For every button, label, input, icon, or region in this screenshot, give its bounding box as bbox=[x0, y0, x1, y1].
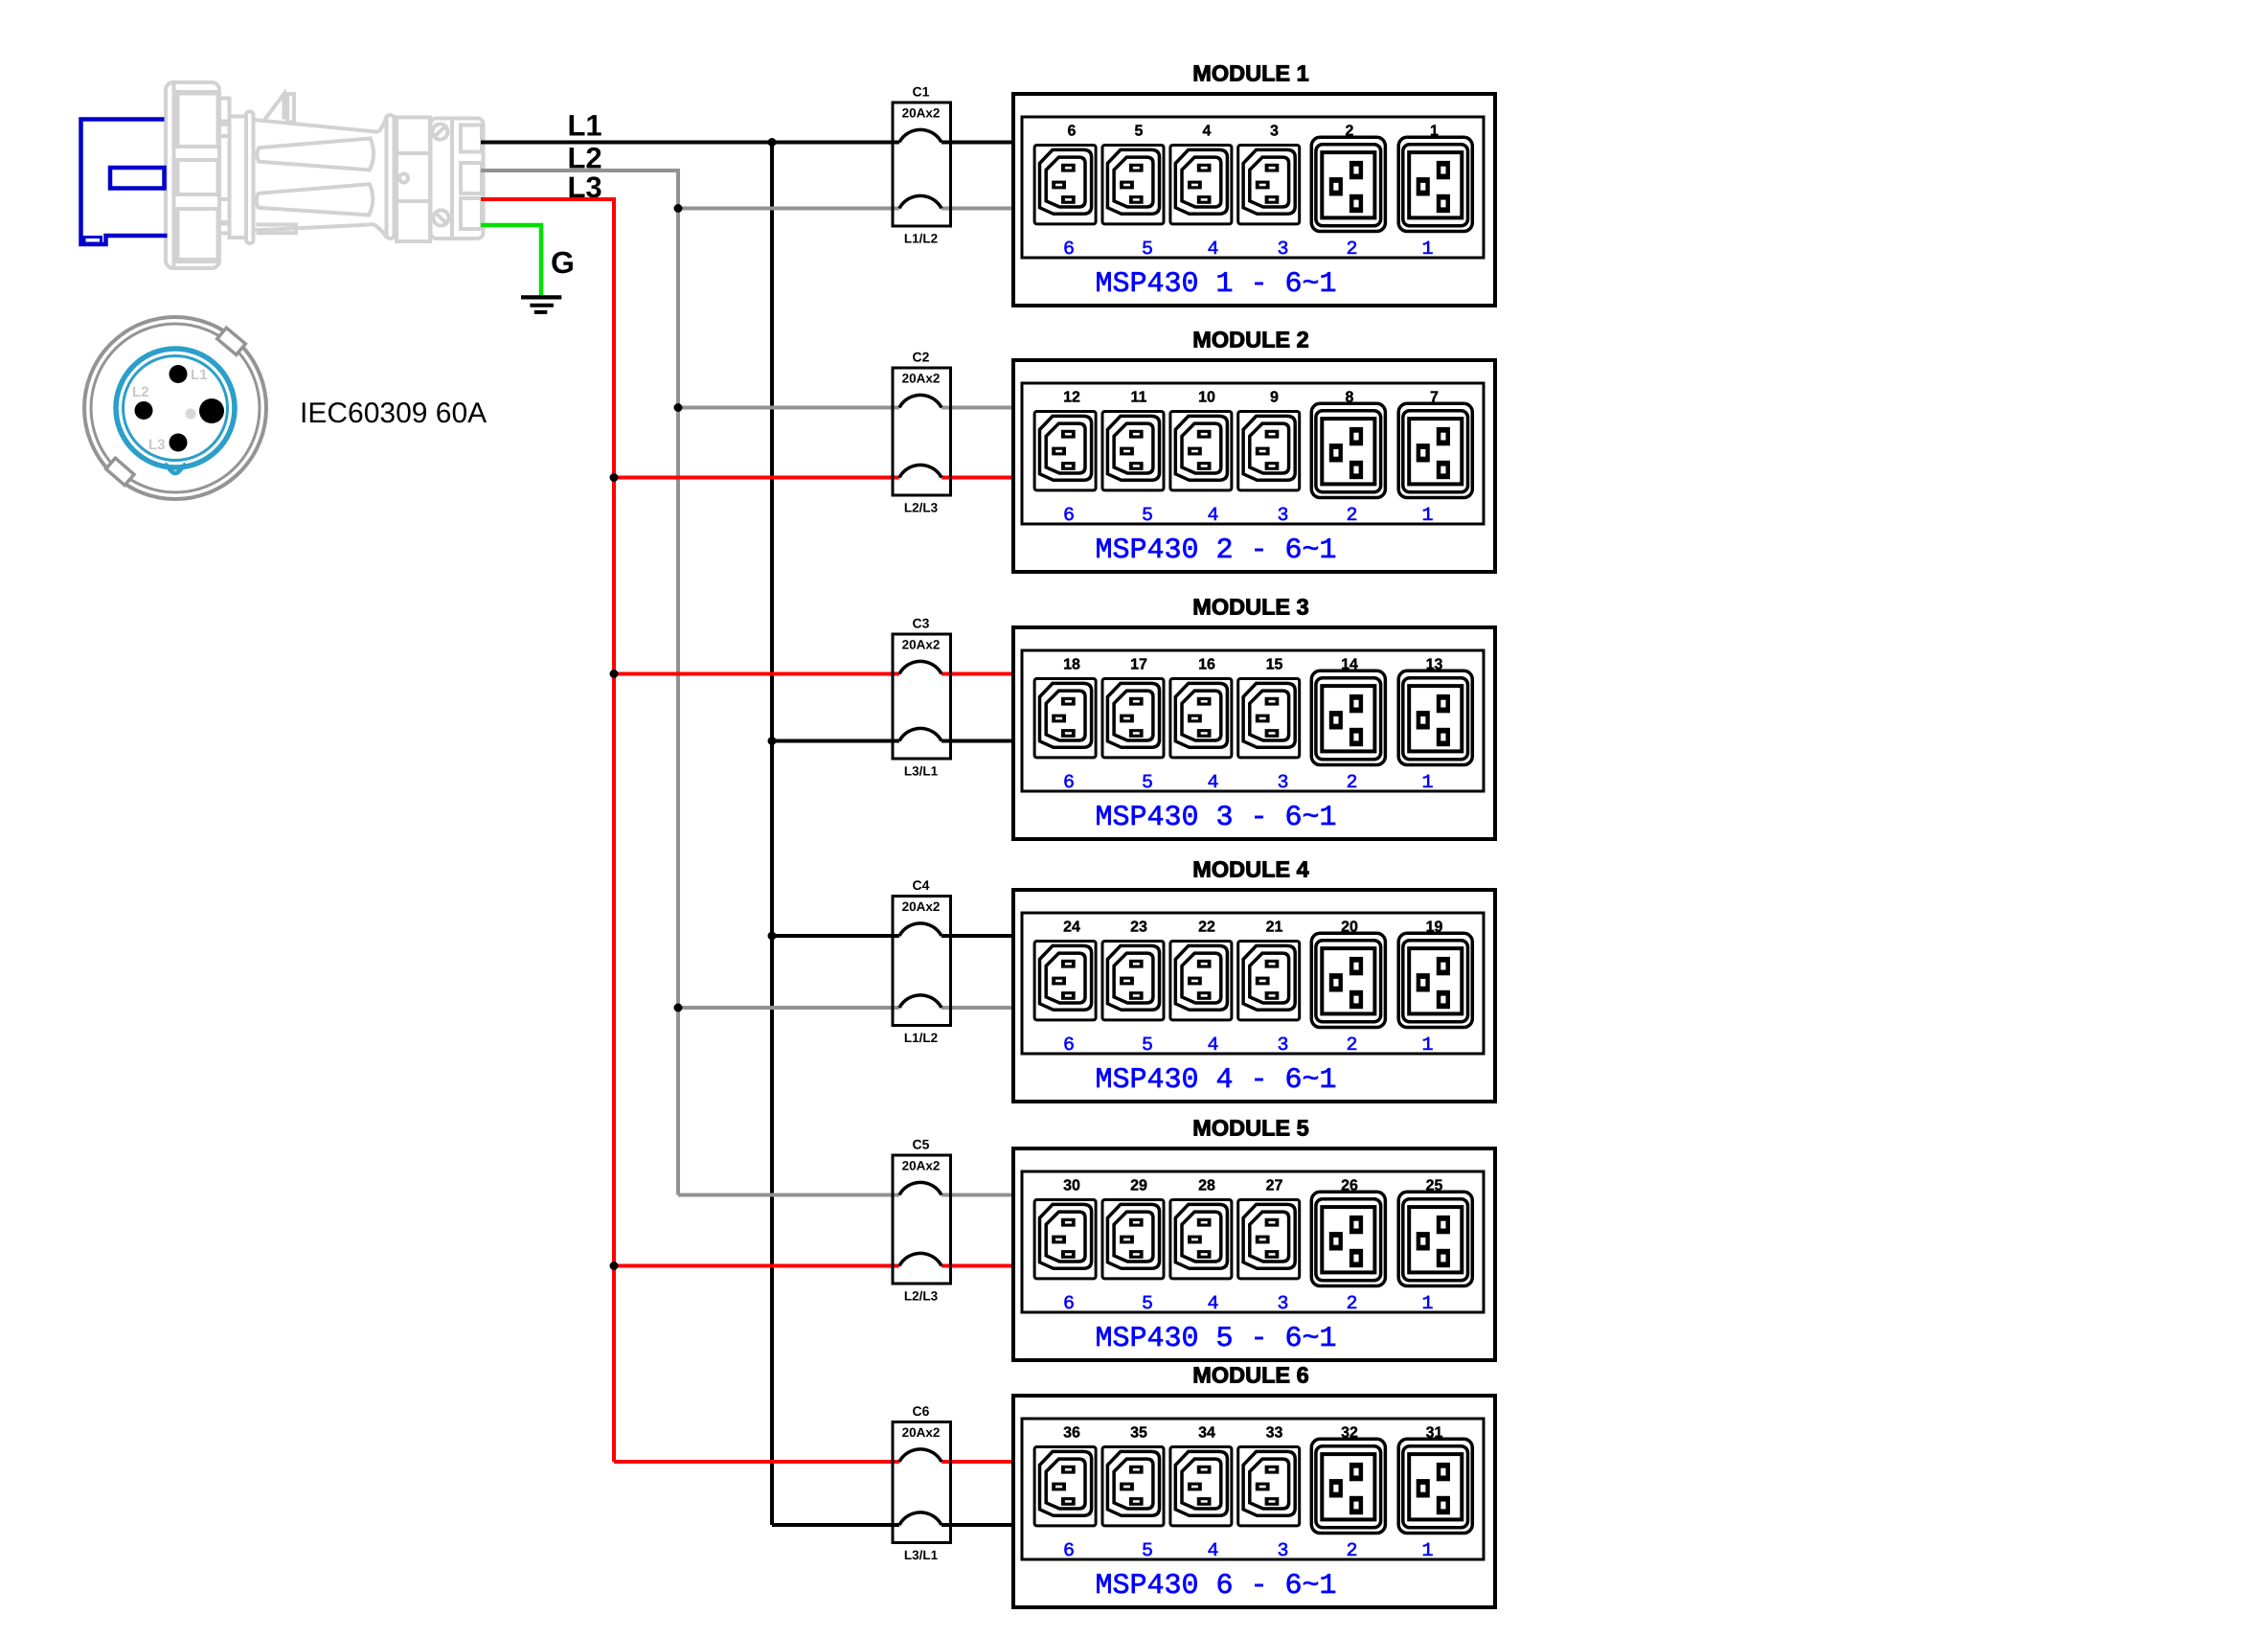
wire L3 from breaker C5 bottom output to module 5 bbox=[941, 1264, 1013, 1268]
svg-text:29: 29 bbox=[1130, 1178, 1147, 1194]
module 2 enclosure bbox=[1013, 360, 1495, 572]
wire L1 from breaker C3 bottom output to module 3 bbox=[941, 739, 1013, 743]
svg-text:MODULE 3: MODULE 3 bbox=[1192, 595, 1308, 620]
svg-text:L1: L1 bbox=[568, 109, 602, 143]
svg-text:L3: L3 bbox=[148, 437, 166, 453]
svg-text:7: 7 bbox=[1430, 390, 1439, 406]
outlet 16 (IEC C13) bbox=[1170, 679, 1232, 758]
wire L3 branch from bus to breaker C2 bottom input bbox=[614, 476, 899, 480]
svg-text:MSP430 1 - 6~1: MSP430 1 - 6~1 bbox=[1095, 268, 1336, 301]
svg-text:17: 17 bbox=[1130, 657, 1147, 673]
outlet 33 (IEC C13) bbox=[1238, 1447, 1300, 1526]
outlet 36 (IEC C13) bbox=[1034, 1447, 1096, 1526]
svg-text:6: 6 bbox=[1063, 1293, 1075, 1315]
svg-text:21: 21 bbox=[1266, 920, 1283, 936]
outlet 14 (IEC C19) bbox=[1311, 671, 1385, 764]
svg-text:4: 4 bbox=[1207, 239, 1218, 261]
outlet 9 (IEC C13) bbox=[1238, 412, 1300, 490]
pin N/PE of connector face bbox=[199, 398, 224, 423]
node L2 tap at C4 bbox=[674, 1004, 683, 1012]
svg-text:1: 1 bbox=[1421, 1540, 1433, 1562]
svg-text:L1/L2: L1/L2 bbox=[904, 232, 938, 246]
outlet 8 (IEC C19) bbox=[1311, 403, 1385, 497]
plug J1: IEC60309 60A 3P+E plug, side view (light gray CAD drawing) bbox=[166, 82, 484, 268]
svg-text:MSP430 5 - 6~1: MSP430 5 - 6~1 bbox=[1095, 1323, 1336, 1355]
svg-text:19: 19 bbox=[1426, 920, 1443, 936]
svg-text:5: 5 bbox=[1142, 772, 1153, 794]
wire L3 branch from bus to breaker C3 top input bbox=[614, 672, 899, 676]
svg-text:6: 6 bbox=[1063, 239, 1075, 261]
svg-text:15: 15 bbox=[1266, 657, 1283, 673]
svg-text:28: 28 bbox=[1198, 1178, 1215, 1194]
module 5 enclosure bbox=[1013, 1148, 1495, 1360]
outlet 13 (IEC C19) bbox=[1398, 671, 1472, 764]
outlet 3 (IEC C13) bbox=[1238, 146, 1300, 224]
wire L3 from breaker C6 top output to module 6 bbox=[941, 1460, 1013, 1464]
wire L1 branch from bus to breaker C3 bottom input bbox=[772, 739, 899, 743]
svg-text:MSP430 2 - 6~1: MSP430 2 - 6~1 bbox=[1095, 534, 1336, 567]
svg-text:20Ax2: 20Ax2 bbox=[902, 1425, 941, 1440]
connector face J1: IEC60309 60A front view bbox=[84, 317, 266, 499]
wire L3 branch from bus to breaker C5 bottom input bbox=[614, 1264, 899, 1268]
svg-text:L2/L3: L2/L3 bbox=[904, 1289, 939, 1304]
outlet 17 (IEC C13) bbox=[1102, 679, 1164, 758]
bus L1 (black vertical) bbox=[770, 143, 774, 1526]
breaker C5 (L2/L3 20Ax2) bbox=[893, 1155, 951, 1284]
svg-text:2: 2 bbox=[1346, 124, 1354, 140]
svg-text:36: 36 bbox=[1063, 1425, 1080, 1442]
svg-text:C4: C4 bbox=[913, 877, 930, 893]
svg-text:20Ax2: 20Ax2 bbox=[902, 638, 941, 652]
outlet 31 (IEC C19) bbox=[1398, 1439, 1472, 1533]
outlet 1 (IEC C19) bbox=[1398, 137, 1472, 231]
center pilot dot of connector face bbox=[186, 409, 196, 420]
outlet 22 (IEC C13) bbox=[1170, 942, 1232, 1020]
outlet 10 (IEC C13) bbox=[1170, 412, 1232, 490]
module 3 outlet panel bbox=[1022, 650, 1484, 791]
wire L2 branch from bus to breaker C4 bottom input bbox=[678, 1006, 899, 1010]
svg-text:2: 2 bbox=[1346, 505, 1357, 527]
svg-text:20Ax2: 20Ax2 bbox=[902, 1159, 941, 1173]
svg-text:3: 3 bbox=[1277, 1293, 1288, 1315]
wire L2 branch from bus to breaker C5 top input bbox=[678, 1194, 899, 1197]
breaker C2 (L2/L3 20Ax2) bbox=[893, 368, 951, 495]
svg-text:L1/L2: L1/L2 bbox=[904, 1031, 938, 1045]
svg-text:6: 6 bbox=[1063, 1034, 1075, 1057]
outlet 23 (IEC C13) bbox=[1102, 942, 1164, 1020]
wire L1 from breaker C1 top output to module 1 bbox=[941, 141, 1013, 145]
module 1 outlet panel bbox=[1022, 117, 1484, 258]
outlet 7 (IEC C19) bbox=[1398, 403, 1472, 497]
outlet 18 (IEC C13) bbox=[1034, 679, 1096, 758]
outlet 28 (IEC C13) bbox=[1170, 1200, 1232, 1279]
node L3 tap at C2 bbox=[610, 473, 619, 482]
wire L1 from breaker C6 bottom output to module 6 bbox=[941, 1523, 1013, 1527]
svg-text:IEC60309 60A: IEC60309 60A bbox=[300, 398, 487, 429]
breaker C4 (L1/L2 20Ax2) bbox=[893, 897, 951, 1026]
svg-text:MODULE 5: MODULE 5 bbox=[1192, 1116, 1308, 1141]
outlet 4 (IEC C13) bbox=[1170, 146, 1232, 224]
svg-text:L1: L1 bbox=[191, 367, 208, 383]
svg-text:MODULE 6: MODULE 6 bbox=[1192, 1363, 1308, 1388]
svg-text:5: 5 bbox=[1135, 124, 1144, 140]
svg-text:23: 23 bbox=[1130, 920, 1147, 936]
svg-text:C6: C6 bbox=[913, 1403, 930, 1419]
svg-text:MSP430 6 - 6~1: MSP430 6 - 6~1 bbox=[1095, 1570, 1336, 1603]
outlet 27 (IEC C13) bbox=[1238, 1200, 1300, 1279]
svg-text:6: 6 bbox=[1068, 124, 1077, 140]
module 4 enclosure bbox=[1013, 890, 1495, 1102]
outlet 30 (IEC C13) bbox=[1034, 1200, 1096, 1279]
svg-text:3: 3 bbox=[1277, 772, 1288, 794]
module 4 outlet panel bbox=[1022, 913, 1484, 1054]
ground symbol bbox=[521, 297, 561, 312]
node L1 tap at C1 bbox=[768, 138, 777, 147]
svg-text:MODULE 2: MODULE 2 bbox=[1192, 328, 1308, 352]
svg-text:6: 6 bbox=[1063, 772, 1075, 794]
pin L3 of connector face bbox=[170, 434, 188, 452]
node L1 tap at C3 bbox=[768, 737, 777, 745]
svg-text:14: 14 bbox=[1341, 657, 1358, 673]
svg-text:9: 9 bbox=[1270, 390, 1279, 406]
svg-text:5: 5 bbox=[1142, 239, 1153, 261]
outlet 26 (IEC C19) bbox=[1311, 1192, 1385, 1285]
svg-text:12: 12 bbox=[1063, 390, 1080, 406]
wire L2 from breaker C4 bottom output to module 4 bbox=[941, 1006, 1013, 1010]
svg-text:1: 1 bbox=[1421, 1293, 1433, 1315]
wire L3 from breaker C2 bottom output to module 2 bbox=[941, 476, 1013, 480]
wire L3 from breaker C3 top output to module 3 bbox=[941, 672, 1013, 676]
wire L2 branch from bus to breaker C1 bottom input bbox=[678, 207, 899, 211]
svg-text:2: 2 bbox=[1346, 1540, 1357, 1562]
svg-text:16: 16 bbox=[1198, 657, 1215, 673]
wire L2 from breaker C1 bottom output to module 1 bbox=[941, 207, 1013, 211]
svg-text:18: 18 bbox=[1063, 657, 1080, 673]
svg-text:4: 4 bbox=[1203, 124, 1212, 140]
outlet 25 (IEC C19) bbox=[1398, 1192, 1472, 1285]
outlet 24 (IEC C13) bbox=[1034, 942, 1096, 1020]
svg-text:L2: L2 bbox=[132, 384, 149, 400]
svg-text:20Ax2: 20Ax2 bbox=[902, 372, 941, 386]
wire L2 (gray) from plug, turning down into L2 bus bbox=[481, 171, 678, 1195]
svg-text:1: 1 bbox=[1430, 124, 1439, 140]
outlet 21 (IEC C13) bbox=[1238, 942, 1300, 1020]
outlet 2 (IEC C19) bbox=[1311, 137, 1385, 231]
svg-text:C2: C2 bbox=[913, 350, 930, 365]
svg-text:C1: C1 bbox=[913, 84, 930, 100]
svg-text:MSP430 4 - 6~1: MSP430 4 - 6~1 bbox=[1095, 1064, 1336, 1097]
svg-text:6: 6 bbox=[1063, 505, 1075, 527]
node L1 tap at C4 bbox=[768, 932, 777, 941]
wire G (green) from plug to ground bbox=[481, 225, 541, 297]
wire L2 branch from bus to breaker C2 top input bbox=[678, 406, 899, 410]
outlet 19 (IEC C19) bbox=[1398, 933, 1472, 1027]
svg-text:C3: C3 bbox=[913, 616, 930, 631]
svg-text:26: 26 bbox=[1341, 1178, 1358, 1194]
outlet 35 (IEC C13) bbox=[1102, 1447, 1164, 1526]
svg-text:22: 22 bbox=[1198, 920, 1215, 936]
outlet 20 (IEC C19) bbox=[1311, 933, 1385, 1027]
svg-text:34: 34 bbox=[1198, 1425, 1215, 1442]
breaker C1 (L1/L2 20Ax2) bbox=[893, 102, 951, 226]
outlet 6 (IEC C13) bbox=[1034, 146, 1096, 224]
svg-text:L3/L1: L3/L1 bbox=[904, 1548, 939, 1562]
svg-text:24: 24 bbox=[1063, 920, 1080, 936]
svg-text:MODULE 4: MODULE 4 bbox=[1192, 857, 1308, 882]
svg-text:MSP430 3 - 6~1: MSP430 3 - 6~1 bbox=[1095, 802, 1336, 834]
svg-text:35: 35 bbox=[1130, 1425, 1147, 1442]
svg-text:8: 8 bbox=[1346, 390, 1354, 406]
svg-text:11: 11 bbox=[1131, 390, 1147, 406]
node L2 tap at C2 bbox=[674, 403, 683, 412]
wire L2 from breaker C2 top output to module 2 bbox=[941, 406, 1013, 410]
module 3 enclosure bbox=[1013, 627, 1495, 839]
svg-text:1: 1 bbox=[1421, 772, 1433, 794]
svg-text:20Ax2: 20Ax2 bbox=[902, 106, 941, 121]
wire L2 from breaker C5 top output to module 5 bbox=[941, 1194, 1013, 1197]
outlet 11 (IEC C13) bbox=[1102, 412, 1164, 490]
wire L3 (red) from plug, turning down into L3 bus bbox=[481, 199, 614, 1462]
svg-text:6: 6 bbox=[1063, 1540, 1075, 1562]
node L3 tap at C3 bbox=[610, 670, 619, 678]
svg-text:3: 3 bbox=[1277, 505, 1288, 527]
svg-text:4: 4 bbox=[1207, 772, 1218, 794]
svg-text:33: 33 bbox=[1266, 1425, 1283, 1442]
svg-text:10: 10 bbox=[1198, 390, 1215, 406]
svg-text:31: 31 bbox=[1426, 1425, 1443, 1442]
svg-text:32: 32 bbox=[1341, 1425, 1358, 1442]
svg-text:4: 4 bbox=[1207, 1293, 1218, 1315]
svg-text:2: 2 bbox=[1346, 1034, 1357, 1057]
module 6 outlet panel bbox=[1022, 1419, 1484, 1559]
plug J1 cable clamp housing (blue) bbox=[81, 120, 168, 245]
svg-text:30: 30 bbox=[1063, 1178, 1080, 1194]
outlet 12 (IEC C13) bbox=[1034, 412, 1096, 490]
svg-text:C5: C5 bbox=[913, 1137, 930, 1152]
svg-text:G: G bbox=[551, 245, 575, 280]
svg-text:5: 5 bbox=[1142, 1293, 1153, 1315]
svg-text:4: 4 bbox=[1207, 505, 1218, 527]
svg-text:1: 1 bbox=[1421, 505, 1433, 527]
svg-text:5: 5 bbox=[1142, 1540, 1153, 1562]
svg-text:27: 27 bbox=[1266, 1178, 1283, 1194]
svg-text:4: 4 bbox=[1207, 1034, 1218, 1057]
svg-text:13: 13 bbox=[1426, 657, 1443, 673]
svg-text:1: 1 bbox=[1421, 1034, 1433, 1057]
svg-text:3: 3 bbox=[1277, 1034, 1288, 1057]
svg-text:3: 3 bbox=[1277, 1540, 1288, 1562]
svg-text:4: 4 bbox=[1207, 1540, 1218, 1562]
wire L1 (black) from plug to breaker C1 input bbox=[481, 141, 899, 145]
svg-text:3: 3 bbox=[1270, 124, 1279, 140]
breaker C6 (L3/L1 20Ax2) bbox=[893, 1422, 951, 1543]
wire L1 from breaker C4 top output to module 4 bbox=[941, 934, 1013, 938]
node L3 tap at C5 bbox=[610, 1262, 619, 1270]
svg-text:2: 2 bbox=[1346, 1293, 1357, 1315]
module 2 outlet panel bbox=[1022, 383, 1484, 524]
pin L2 of connector face bbox=[135, 401, 153, 420]
outlet 15 (IEC C13) bbox=[1238, 679, 1300, 758]
outlet 34 (IEC C13) bbox=[1170, 1447, 1232, 1526]
svg-text:L2/L3: L2/L3 bbox=[904, 501, 939, 515]
svg-text:5: 5 bbox=[1142, 505, 1153, 527]
outlet 5 (IEC C13) bbox=[1102, 146, 1164, 224]
svg-text:20Ax2: 20Ax2 bbox=[902, 899, 941, 914]
svg-text:1: 1 bbox=[1421, 239, 1433, 261]
svg-text:2: 2 bbox=[1346, 239, 1357, 261]
svg-text:L3/L1: L3/L1 bbox=[904, 764, 939, 779]
wire L1 branch from bus to breaker C4 top input bbox=[772, 934, 899, 938]
outlet 29 (IEC C13) bbox=[1102, 1200, 1164, 1279]
module 5 outlet panel bbox=[1022, 1171, 1484, 1312]
svg-text:25: 25 bbox=[1426, 1178, 1443, 1194]
module 6 enclosure bbox=[1013, 1396, 1495, 1607]
wire L1 branch from bus to breaker C6 bottom input bbox=[772, 1523, 899, 1527]
pin L1 of connector face bbox=[170, 365, 188, 383]
svg-text:5: 5 bbox=[1142, 1034, 1153, 1057]
node L2 tap at C1 bbox=[674, 204, 683, 213]
wire L3 branch from bus to breaker C6 top input bbox=[614, 1460, 899, 1464]
svg-text:MODULE 1: MODULE 1 bbox=[1192, 61, 1308, 86]
outlet 32 (IEC C19) bbox=[1311, 1439, 1385, 1533]
module 1 enclosure bbox=[1013, 94, 1495, 306]
svg-text:3: 3 bbox=[1277, 239, 1288, 261]
breaker C3 (L3/L1 20Ax2) bbox=[893, 634, 951, 759]
svg-text:2: 2 bbox=[1346, 772, 1357, 794]
svg-text:20: 20 bbox=[1341, 920, 1358, 936]
